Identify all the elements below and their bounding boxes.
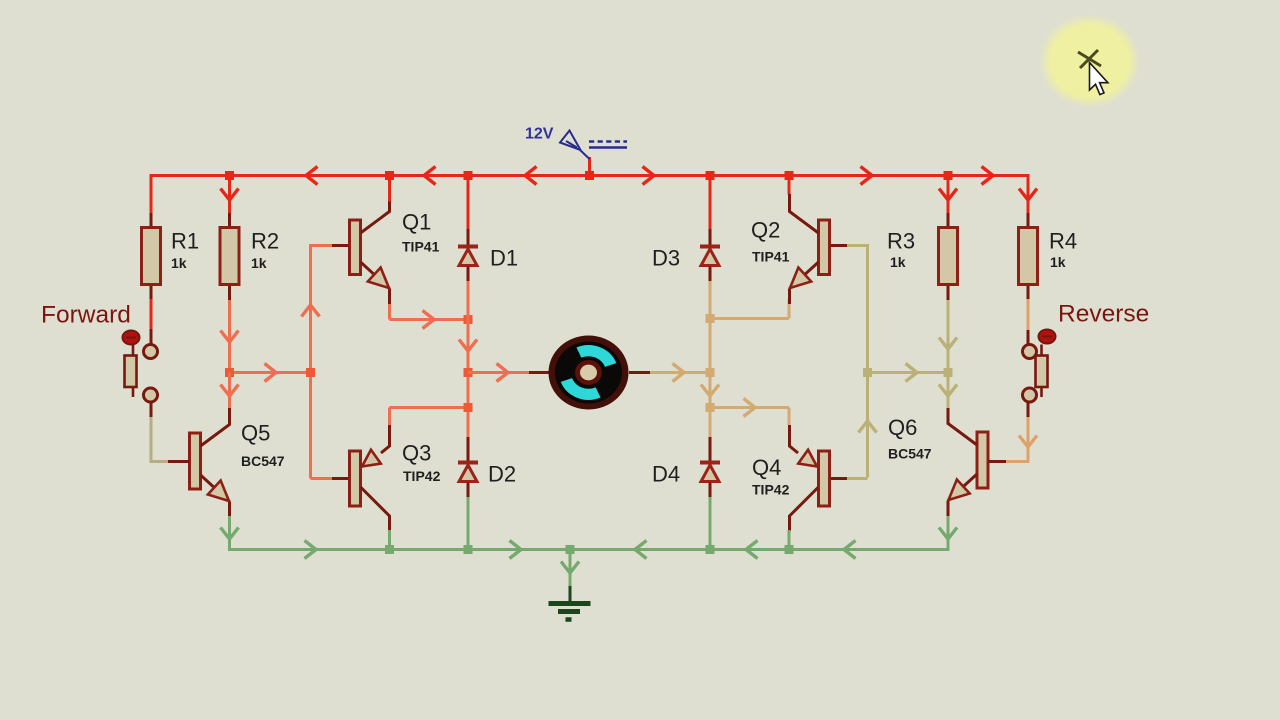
current arrow down to R4 — [1019, 189, 1037, 201]
ground — [549, 586, 591, 620]
current arrow R3 down 1 — [939, 338, 957, 350]
current arrow rail right 2 — [861, 167, 873, 185]
wire: R4 to Reverse button — [1027, 299, 1030, 344]
svg-text:1k: 1k — [171, 255, 187, 271]
current arrow base column up right — [859, 421, 877, 433]
current arrow base column up — [302, 305, 320, 317]
current arrow rail right 2g — [510, 541, 522, 559]
junction rail/Q4 — [785, 545, 794, 554]
wire: Q6 emitter to rail — [947, 516, 950, 551]
resistor R2 — [220, 213, 239, 300]
current arrow R3 down 2 — [939, 385, 957, 397]
junction motor-right/motor — [706, 368, 715, 377]
junction rail/Q1 — [385, 171, 394, 180]
wire: rail left corner drop to R1 — [150, 174, 153, 213]
wire: motor right lead — [629, 371, 710, 374]
svg-text:TIP42: TIP42 — [752, 482, 790, 498]
wire: D2 to rail — [467, 497, 470, 550]
svg-text:1k: 1k — [251, 255, 267, 271]
current arrow rail left 2 — [424, 167, 436, 185]
svg-text:D2: D2 — [488, 462, 516, 487]
junction rail/12V — [585, 171, 594, 180]
wire: Q6 collector from R3 net — [947, 373, 950, 409]
wire: rail drop to R2 — [228, 176, 231, 214]
battery B1 12V symbol — [560, 131, 627, 160]
wire: ground rail — [230, 548, 949, 551]
current arrow node A right — [265, 364, 277, 382]
svg-text:TIP41: TIP41 — [402, 239, 440, 255]
wire: motor left lead — [468, 371, 549, 374]
transistor Q6 BC547 — [948, 408, 988, 517]
wire: Q4 emitter row — [710, 408, 789, 426]
current arrow rail left 3 — [525, 167, 537, 185]
resistor R1 — [142, 213, 161, 300]
wire: R3 bottom to Q6 collector — [947, 300, 950, 407]
wire: Q2 base horizontal — [830, 244, 868, 247]
wire: 12V source stem — [588, 157, 591, 176]
current arrow rail left 2g — [746, 541, 758, 559]
wire: Q4 collector to rail — [788, 530, 791, 550]
wire: rail drop to R3 — [947, 176, 950, 214]
transistor Q2 TIP41 — [790, 194, 830, 304]
wire: Q1 emitter to motor-left column — [390, 318, 469, 321]
current arrow Q4 row right — [744, 399, 756, 417]
wire: Q5 emitter to rail — [228, 516, 231, 551]
svg-text:Q2: Q2 — [751, 218, 780, 243]
diode D4 — [700, 437, 720, 498]
junction motor-left/emitter — [464, 315, 473, 324]
junction rail/R2 — [225, 171, 234, 180]
junction khaki column — [863, 368, 872, 377]
svg-text:Q4: Q4 — [752, 455, 781, 480]
junction motor-right/Q2 — [706, 314, 715, 323]
probe dot Forward — [123, 331, 140, 345]
svg-text:BC547: BC547 — [241, 453, 285, 469]
current arrow to R3 right — [906, 364, 918, 382]
probe dot Reverse — [1039, 330, 1056, 344]
junction rail/R3 — [944, 171, 953, 180]
diode D1 — [458, 229, 478, 282]
wire: +12V top rail — [150, 174, 1030, 177]
svg-text:R3: R3 — [887, 229, 915, 254]
wire: Q3 emitter row — [390, 408, 469, 426]
button SW1 Forward — [125, 345, 158, 403]
svg-text:Q1: Q1 — [402, 210, 431, 235]
wire: Q4 base horizontal — [830, 477, 868, 480]
diode D2 — [458, 437, 478, 498]
wire: rail drop to Q1 collector — [388, 176, 391, 202]
wire: Q2 emitter row — [710, 299, 789, 319]
mouse pointer — [1090, 63, 1108, 95]
current arrow motor-right down — [701, 385, 719, 397]
junction rail/D1 — [464, 171, 473, 180]
junction node A / R2 — [225, 368, 234, 377]
wire: Q5 collector from node A — [228, 373, 231, 409]
current arrow rail left 1g — [635, 541, 647, 559]
svg-text:1k: 1k — [1050, 254, 1066, 270]
current arrow motor right — [673, 364, 685, 382]
current arrow Q5 emitter down — [221, 528, 239, 540]
current arrow rail right 1g — [305, 541, 317, 559]
wire: rail drop to D3 — [709, 176, 712, 230]
current arrow down to R3 — [939, 189, 957, 201]
wire: Q1 base column vertical — [309, 244, 312, 479]
junction motor-left/Q3 — [464, 403, 473, 412]
wire: Q3 base horizontal — [311, 477, 350, 480]
cursor X mark — [1078, 50, 1101, 68]
junction rail/D3 — [706, 171, 715, 180]
current arrow rail left 3g — [844, 541, 856, 559]
svg-text:Reverse: Reverse — [1058, 301, 1149, 328]
junction khaki/R3 — [944, 368, 953, 377]
svg-text:R2: R2 — [251, 229, 279, 254]
svg-text:Q6: Q6 — [888, 415, 917, 440]
wire: motor-left column D1-D2 — [467, 281, 470, 437]
junction rail/Q2 — [785, 171, 794, 180]
junction rail/ground — [566, 545, 575, 554]
current arrow emitter right — [423, 311, 435, 329]
junction rail/D4 — [706, 545, 715, 554]
junction rail/D2 — [464, 545, 473, 554]
wire: Forward button to Q5 base — [151, 402, 190, 462]
current arrow rail left 1 — [306, 167, 318, 185]
svg-text:Forward: Forward — [41, 302, 131, 329]
wire: rail drop to Q2 collector — [788, 176, 791, 195]
svg-text:D4: D4 — [652, 462, 680, 487]
wire: base column to R3 — [868, 371, 949, 374]
junction motor-right/Q4 — [706, 403, 715, 412]
svg-text:R4: R4 — [1049, 229, 1077, 254]
current arrow node A down 1 — [221, 331, 239, 343]
current arrow node A down 2 — [221, 385, 239, 397]
junction rail/Q3 — [385, 545, 394, 554]
svg-text:Q5: Q5 — [241, 421, 270, 446]
svg-text:TIP41: TIP41 — [752, 249, 790, 265]
wire: Reverse button to Q6 base — [988, 402, 1028, 462]
svg-text:BC547: BC547 — [888, 446, 932, 462]
current arrow ground down — [561, 562, 579, 574]
wire: R1 to Forward button — [150, 299, 153, 344]
diode D3 — [700, 229, 720, 282]
wire: motor-right column D3-D4 — [709, 281, 712, 437]
current arrow reverse down — [1019, 436, 1037, 448]
wire: Q1 base horizontal — [311, 244, 350, 247]
current arrow motor left — [497, 364, 509, 382]
svg-text:D1: D1 — [490, 246, 518, 271]
resistor R4 — [1019, 213, 1038, 300]
transistor Q4 TIP42 — [790, 425, 830, 531]
wire: node A to Q1/Q3 base column — [230, 371, 311, 374]
current arrow rail right 3 — [982, 167, 994, 185]
svg-text:Q3: Q3 — [402, 441, 431, 466]
wire: ground stem — [569, 550, 572, 587]
wire: rail drop to D1 — [467, 176, 470, 230]
current arrow motor-left down — [459, 340, 477, 352]
wire: Q2/Q4 base column — [866, 244, 869, 478]
button SW2 Reverse — [1023, 345, 1048, 403]
wire: D4 to rail — [709, 497, 712, 550]
svg-text:1k: 1k — [890, 254, 906, 270]
motor M1 — [549, 336, 629, 410]
transistor Q1 TIP41 — [350, 202, 390, 305]
current arrow down to R2 — [221, 189, 239, 201]
junction base column — [306, 368, 315, 377]
svg-text:12V: 12V — [525, 126, 554, 143]
junction motor-left/motor — [464, 368, 473, 377]
wire: Q3 collector to rail — [388, 530, 391, 550]
resistor R3 — [939, 213, 958, 300]
transistor Q5 BC547 — [190, 408, 230, 518]
svg-text:R1: R1 — [171, 229, 199, 254]
current arrow rail right 1 — [643, 167, 655, 185]
wire: R2 bottom to Q5 collector (node A) — [228, 300, 231, 407]
current arrow Q6 emitter down — [939, 528, 957, 540]
transistor Q3 TIP42 — [350, 425, 390, 531]
svg-text:D3: D3 — [652, 246, 680, 271]
wire: rail right corner drop to R4 — [1027, 174, 1030, 213]
wire: Q1 emitter drop — [388, 299, 391, 320]
svg-text:TIP42: TIP42 — [403, 468, 441, 484]
